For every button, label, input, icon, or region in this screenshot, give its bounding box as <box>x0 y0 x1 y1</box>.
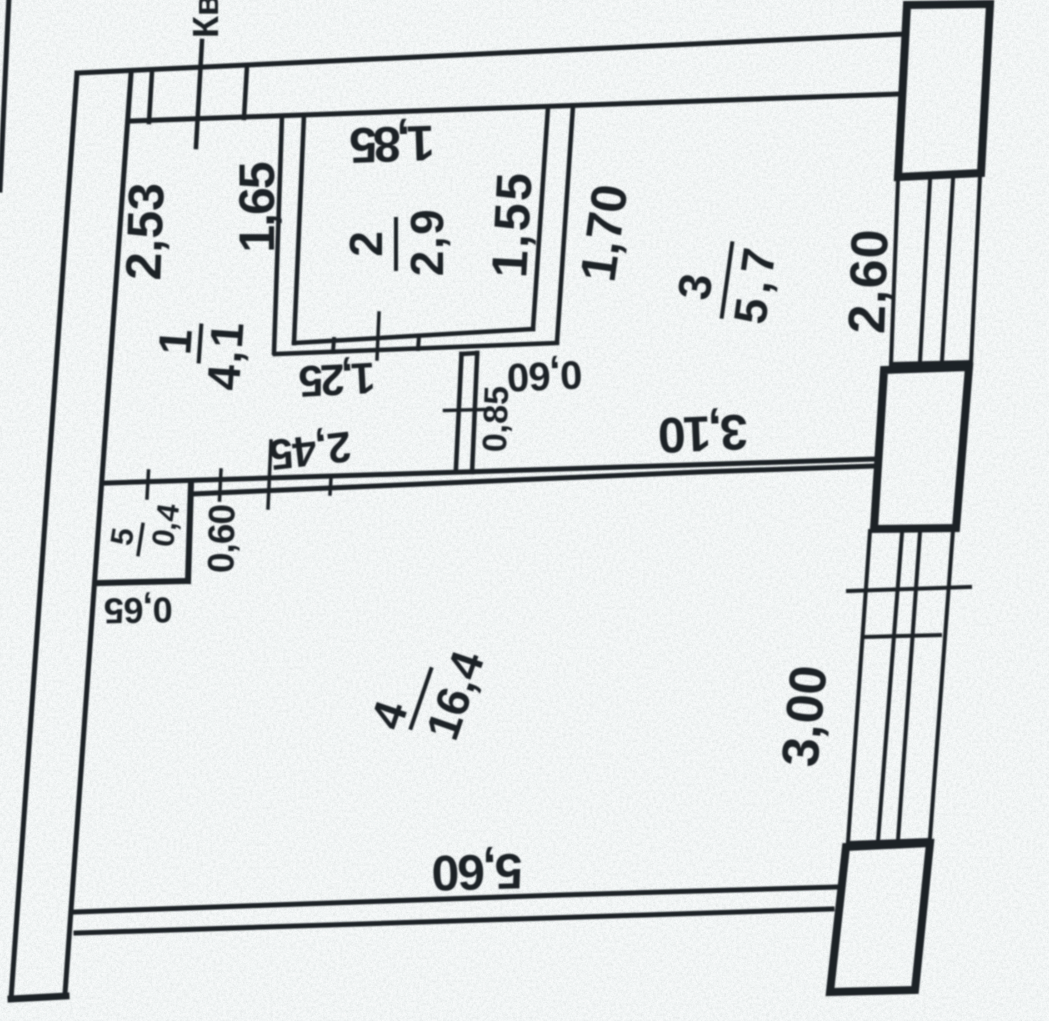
svg-text:0,65: 0,65 <box>104 589 173 631</box>
svg-text:1: 1 <box>148 327 202 356</box>
svg-text:2,45: 2,45 <box>267 422 354 479</box>
svg-text:2: 2 <box>340 231 392 257</box>
svg-text:5,60: 5,60 <box>432 843 523 901</box>
svg-text:0,4: 0,4 <box>145 500 186 549</box>
svg-text:2,9: 2,9 <box>401 208 453 276</box>
svg-text:4,1: 4,1 <box>197 319 254 392</box>
svg-text:3,10: 3,10 <box>658 404 748 464</box>
svg-text:2,60: 2,60 <box>838 227 900 334</box>
svg-text:0,60: 0,60 <box>200 504 242 573</box>
svg-text:1,85: 1,85 <box>349 115 435 174</box>
svg-text:2,53: 2,53 <box>115 182 174 281</box>
svg-text:1,65: 1,65 <box>229 162 285 253</box>
svg-text:3,00: 3,00 <box>771 663 838 769</box>
svg-text:Кв: Кв <box>185 0 226 38</box>
svg-text:1,55: 1,55 <box>481 169 543 279</box>
svg-text:0,60: 0,60 <box>507 352 584 399</box>
svg-text:1,25: 1,25 <box>298 353 377 406</box>
